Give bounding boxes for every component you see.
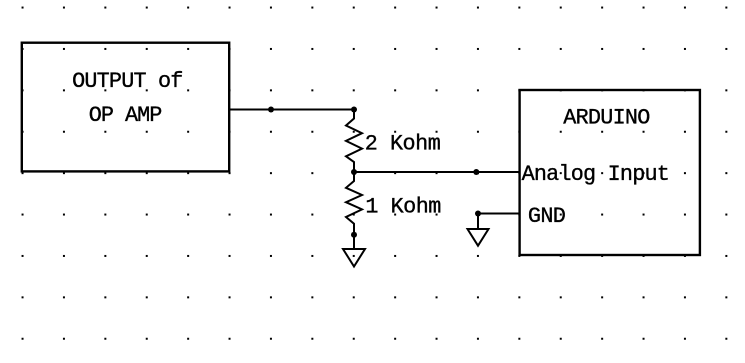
junction node bottom of R2	[351, 232, 357, 238]
junction node top of R1	[351, 107, 357, 113]
wire R2 to ground	[353, 235, 355, 249]
ground symbol below divider	[343, 249, 365, 267]
svg-text:OP AMP: OP AMP	[89, 103, 163, 128]
node divider tap	[351, 169, 357, 175]
wire down to ground from GND pin	[477, 214, 479, 230]
svg-text:ARDUINO: ARDUINO	[563, 106, 650, 131]
ground symbol at GND pin	[468, 229, 489, 246]
svg-text:OUTPUT of: OUTPUT of	[72, 69, 183, 94]
svg-text:2 Kohm: 2 Kohm	[365, 132, 441, 157]
svg-text:Analog Input: Analog Input	[522, 162, 670, 187]
wire divider tap to Analog Input	[354, 171, 520, 173]
junction dot GND wire	[475, 211, 481, 217]
block OUTPUT of OP AMP	[22, 43, 229, 172]
wire GND pin	[478, 213, 520, 215]
junction dot on analog input wire	[473, 169, 479, 175]
svg-text:GND: GND	[528, 204, 566, 229]
block ARDUINO U1	[520, 90, 700, 255]
resistor R2 1 Kohm	[346, 172, 362, 235]
svg-text:1 Kohm: 1 Kohm	[365, 194, 441, 219]
junction dot on output wire	[268, 107, 274, 113]
resistor R1 2 Kohm	[346, 110, 362, 173]
wire op-amp output to resistor divider	[229, 109, 354, 111]
